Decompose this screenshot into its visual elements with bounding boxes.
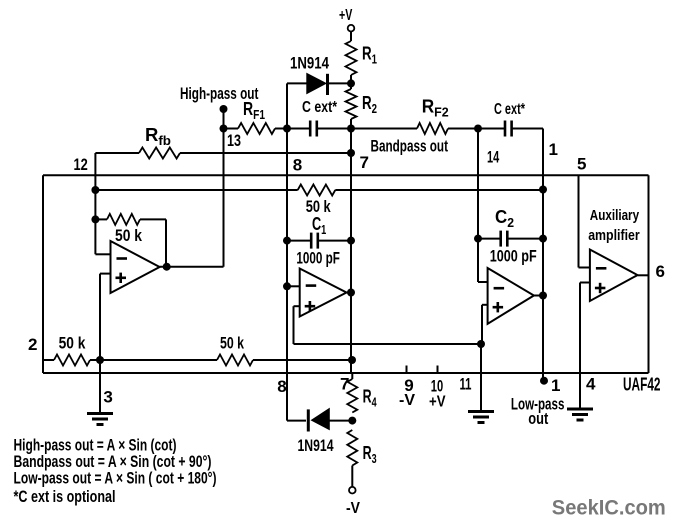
wire C2 left (478, 238, 501, 240)
wire A3 noninverting input to rail D node (482, 305, 488, 344)
wire node 13 to RF1 (224, 128, 239, 130)
wire C ext to node 7 top (317, 128, 351, 130)
wire A2 inverting input (287, 285, 300, 287)
ground pin 11 (468, 410, 494, 413)
node 7 on rail A (347, 149, 355, 157)
svg-text:7: 7 (340, 375, 349, 394)
svg-text:8: 8 (277, 377, 286, 396)
svg-text:Low-pass out = A × Sin ( cot +: Low-pass out = A × Sin ( cot + 180°) (14, 469, 217, 488)
wire C2 right (507, 238, 543, 240)
wire rail E pin 2 segment 1 (43, 359, 54, 361)
svg-text:Auxiliary: Auxiliary (590, 207, 640, 224)
resistor RF1 (238, 123, 275, 134)
svg-text:SeekIC.com: SeekIC.com (552, 496, 666, 520)
svg-text:13: 13 (227, 131, 241, 150)
svg-text:1N914: 1N914 (290, 54, 329, 73)
capacitor C ext right (504, 121, 507, 137)
op-amp A4 auxiliary amplifier (590, 250, 638, 302)
wire high-pass output vertical (pin 13) (223, 109, 225, 267)
svg-text:3: 3 (103, 387, 112, 406)
terminal -V (349, 487, 356, 494)
node A2 output (347, 289, 355, 297)
svg-text:50 k: 50 k (59, 334, 86, 353)
wire node 14 to C ext 2 (478, 128, 505, 130)
svg-text:1: 1 (551, 376, 560, 395)
node rail C left (91, 186, 99, 194)
wire C1 right (318, 240, 351, 242)
wire pin 11 vertical to ground (480, 344, 482, 412)
node R1 R2 diode junction (347, 79, 355, 87)
wire rail A pin 12 to Rfb (95, 152, 139, 154)
wire R1 to junction (350, 75, 352, 89)
svg-text:+V: +V (429, 394, 446, 411)
wire A1 feedback node to resistor (95, 218, 107, 220)
svg-text:Bandpass out: Bandpass out (371, 137, 449, 156)
resistor R1 (346, 41, 357, 75)
capacitor C1 (310, 233, 313, 249)
wire diode D1 anode from pin 8 column (287, 83, 307, 128)
wire rail E segment 3 (253, 359, 351, 361)
svg-text:-V: -V (399, 392, 415, 409)
resistor RF2 (417, 123, 448, 134)
svg-text:14: 14 (487, 148, 500, 167)
node low-pass out terminal (540, 377, 548, 385)
capacitor C ext top (309, 121, 312, 137)
node 13 (220, 125, 228, 133)
svg-text:7: 7 (360, 153, 369, 172)
resistor 50k on rail C (298, 185, 336, 196)
svg-text:1N914: 1N914 (298, 436, 334, 455)
resistor Rfb (139, 148, 180, 159)
wire A1 output to high-pass line (160, 266, 224, 268)
wire bottom rail (43, 372, 649, 374)
capacitor C2 (499, 231, 502, 247)
wire A1 feedback to output (140, 219, 166, 266)
wire left box edge (42, 175, 44, 373)
node A3 output (539, 292, 547, 300)
resistor 50k A1 feedback (107, 214, 140, 225)
wire A4 output to pin 6 edge (638, 274, 649, 276)
svg-text:11: 11 (460, 375, 472, 394)
wire A2 noninverting input to rail D (294, 306, 300, 344)
svg-text:2: 2 (28, 335, 37, 354)
svg-text:UAF42: UAF42 (623, 375, 661, 395)
node rail E right (348, 356, 356, 364)
ground pin 3 (87, 412, 113, 415)
svg-text:*C ext is optional: *C ext is optional (14, 487, 116, 506)
wire diode D1 cathode to R1/R2 junction (329, 82, 351, 84)
node 14 (474, 125, 482, 133)
pin 10 tick (437, 366, 439, 374)
svg-text:+V: +V (339, 7, 353, 24)
node R4 R3 diode (348, 417, 356, 425)
diode D2 1N914 bottom (312, 409, 330, 430)
wire Rfb to node 7 (180, 152, 351, 154)
svg-text:amplifier: amplifier (588, 227, 640, 244)
ground pin 4 (567, 408, 593, 411)
wire A3 output (534, 295, 543, 297)
wire diode D2 cathode from pin 8 column (287, 420, 306, 422)
wire pin 1 vertical (low-pass) (542, 129, 544, 381)
svg-text:6: 6 (656, 262, 665, 281)
svg-text:1: 1 (549, 140, 558, 159)
node A2 inverting input (283, 282, 291, 290)
op-amp A2 (300, 269, 347, 317)
op-amp A1 (111, 241, 160, 293)
op-amp A3 (488, 268, 534, 324)
wire rail C left segment (95, 189, 297, 191)
wire node 8 to C ext (287, 128, 310, 130)
resistor 50k rail E mid (217, 355, 253, 366)
wire rail B box top (43, 174, 649, 176)
wire rail C right segment (335, 189, 543, 191)
svg-text:5: 5 (577, 155, 586, 174)
node A1 feedback (91, 215, 99, 223)
svg-text:50 k: 50 k (220, 334, 244, 353)
svg-text:8: 8 (293, 156, 302, 175)
node high-pass out terminal (220, 105, 228, 113)
node C1 left (283, 237, 291, 245)
node rail E pin 3 (96, 356, 104, 364)
wire diode D2 anode to R4/R3 node (328, 420, 352, 422)
wire pin 12 vertical to A1 inverting input (95, 153, 110, 254)
wire C1 left (287, 240, 311, 242)
wire C ext 2 to pin 1 corner (512, 128, 543, 130)
wire pin 7 column vertical (350, 129, 352, 374)
wire right box edge (648, 175, 650, 373)
node pin 8 / RF1 / C ext (283, 125, 291, 133)
node rail D right (477, 340, 485, 348)
wire R3 to -V terminal (351, 466, 353, 487)
svg-text:-V: -V (346, 500, 360, 517)
node A1 output (163, 263, 171, 271)
wire A2 output to pin 7 column (347, 292, 352, 294)
resistor 50k rail E left (54, 355, 90, 366)
resistor R3 (347, 430, 357, 466)
resistor R4 (347, 379, 357, 413)
wire pin 8 vertical (286, 129, 288, 421)
wire R2 to bandpass row (350, 119, 352, 129)
pin 9 tick (406, 366, 408, 374)
node C2 left (474, 235, 482, 243)
wire pin 14 vertical to A3 inverting input (478, 129, 488, 283)
node rail C right pin 1 (539, 186, 547, 194)
wire node 7 top to RF2 (351, 128, 417, 130)
svg-text:C ext*: C ext* (494, 101, 526, 118)
wire R4 top stub (351, 373, 353, 379)
wire A1 noninverting input to pin 3 ground (100, 274, 111, 414)
wire pin 5 vertical to A4 inverting input (579, 175, 590, 267)
node 7 bandpass top (347, 125, 355, 133)
svg-text:out: out (528, 409, 548, 428)
diode D1 1N914 top (307, 74, 326, 94)
svg-text:4: 4 (586, 375, 596, 394)
svg-text:1000 pF: 1000 pF (296, 249, 340, 268)
svg-text:12: 12 (74, 155, 88, 174)
wire A4 noninverting input to pin 4 ground (580, 283, 590, 410)
wire rail D feedback (294, 343, 482, 345)
svg-text:C ext*: C ext* (302, 99, 338, 116)
node C1 right (347, 237, 355, 245)
svg-text:1000 pF: 1000 pF (490, 247, 537, 266)
node C2 right (539, 235, 547, 243)
resistor R2 (346, 89, 357, 119)
wire +V supply to R1 (350, 32, 352, 41)
wire RF2 to node 14 (448, 128, 478, 130)
wire RF1 to node 8 (275, 128, 287, 130)
svg-text:50 k: 50 k (115, 226, 142, 245)
wire rail E segment 2 (90, 359, 217, 361)
terminal +V (348, 25, 355, 32)
